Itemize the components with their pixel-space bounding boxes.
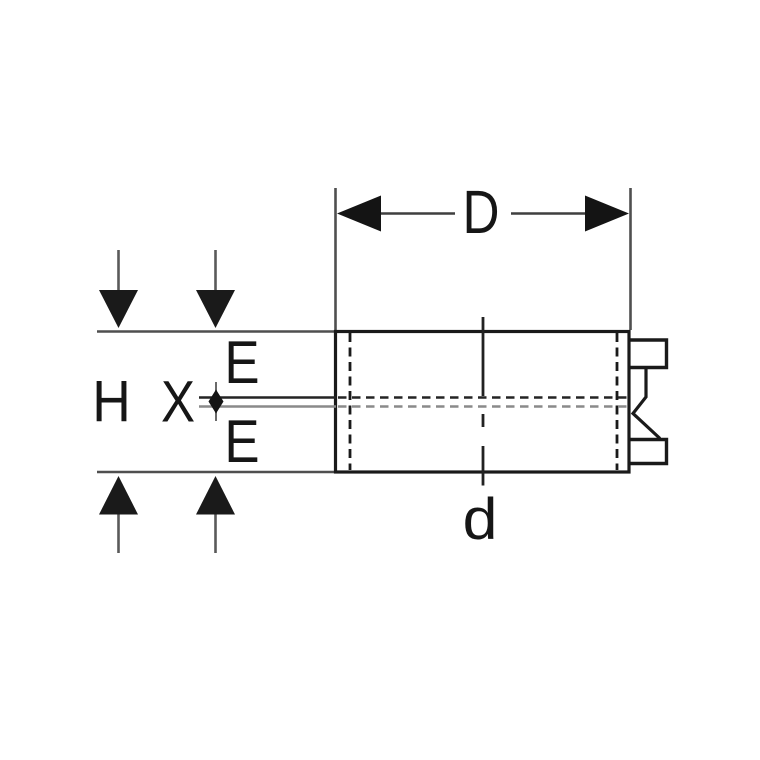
wire X lower line solid [199,405,336,408]
svg-text:E: E [224,329,259,396]
terminal connector zigzag [633,369,660,439]
H dimension arrow down-left [99,250,138,328]
svg-text:d: d [463,486,498,551]
wire X upper line solid [199,396,336,399]
D dimension line with arrowheads [337,196,629,232]
fitting body outline [336,332,630,473]
hidden edge dashed line left socket [349,333,352,470]
X marker point [209,382,224,421]
svg-text:X: X [161,369,195,434]
welding terminal bottom tab [629,440,667,464]
H dimension arrow up-right [196,476,235,553]
wire H top extension line [97,330,336,333]
hidden X lower line dashed [338,405,628,408]
hidden X upper line dashed [338,396,628,399]
H dimension arrow down-right [196,250,235,328]
vertical centerline [482,317,485,486]
hidden edge dashed line right socket [616,333,619,470]
wire D right extension line [629,188,632,330]
wire H bottom extension line [97,471,336,474]
svg-text:H: H [92,369,131,434]
welding terminal top tab [629,340,667,368]
H dimension arrow up-left [99,476,138,553]
wire D left extension line [334,188,337,330]
svg-text:E: E [224,408,259,475]
svg-text:D: D [462,178,499,246]
